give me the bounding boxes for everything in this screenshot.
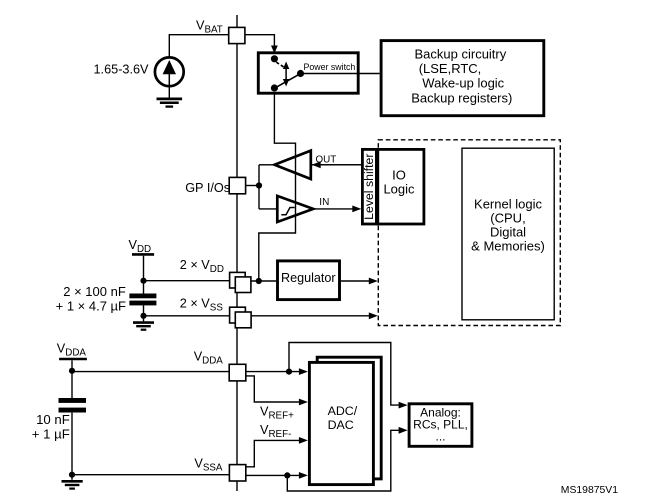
- wire VREF- tap: [246, 440, 299, 466]
- svg-text:Backup registers): Backup registers): [411, 90, 512, 105]
- svg-text:Wake-up logic: Wake-up logic: [422, 76, 504, 91]
- svg-text:& Memories): & Memories): [471, 239, 545, 254]
- wire VDDA rail down: [71, 360, 73, 398]
- wire VDDA line to pin: [72, 371, 229, 373]
- svg-text:Logic: Logic: [383, 181, 415, 196]
- arrows into ADC: [299, 368, 308, 375]
- VDD rail symbol: [129, 238, 155, 255]
- VDDA rail symbol: [57, 342, 87, 359]
- pin VBAT: [229, 27, 245, 43]
- svg-text:ADC/: ADC/: [328, 404, 358, 418]
- voltage source V1 1.65-3.6V: [155, 57, 184, 86]
- capacitor C1 plates: [129, 294, 156, 306]
- wire VBAT pin to power switch: [245, 35, 275, 49]
- wire regulator to kernel: [341, 280, 370, 282]
- wire cap1 to VSS line and ground: [143, 305, 145, 321]
- wire VSS pin to kernel: [251, 315, 369, 317]
- level shifter box: [362, 149, 376, 224]
- wire OUT line over boxes: [312, 164, 362, 166]
- node dot VDD rail: [140, 278, 146, 284]
- switch lever: [272, 72, 304, 90]
- node dot regulator input: [256, 278, 262, 284]
- svg-text:OUT: OUT: [316, 154, 337, 165]
- svg-text:+ 1 × 4.7 µF: + 1 × 4.7 µF: [56, 298, 126, 313]
- svg-text:Level shifter: Level shifter: [362, 154, 376, 220]
- wire VDDA pin to ADC: [246, 371, 300, 373]
- pin GP I/Os: [229, 177, 245, 193]
- svg-text:10 nF: 10 nF: [36, 412, 70, 427]
- kernel dashed region: [378, 140, 560, 326]
- ground below source: [157, 86, 183, 106]
- svg-text:+ 1 µF: + 1 µF: [32, 426, 70, 441]
- node dot GP junction: [256, 182, 262, 188]
- ADC/DAC stacked boxes: [309, 357, 381, 484]
- ground below C1: [133, 323, 154, 330]
- svg-text:Regulator: Regulator: [281, 271, 336, 285]
- wire source to VBAT pin: [169, 35, 228, 58]
- wire VDDA loop over ADC to analog box: [289, 343, 399, 406]
- pin VDDA: [229, 364, 246, 381]
- node dot VSSA line: [284, 472, 290, 478]
- arrows into analog box: [399, 402, 408, 409]
- switch top contact: [271, 55, 278, 62]
- wire main vertical pin rail: [236, 15, 238, 491]
- svg-text:GP I/Os: GP I/Os: [185, 181, 230, 195]
- pin 2xVSS (two): [230, 307, 246, 323]
- svg-text:IN: IN: [319, 197, 329, 208]
- regulator box: [278, 261, 340, 300]
- svg-text:Backup circuitry: Backup circuitry: [415, 47, 507, 62]
- svg-text:(LSE,RTC,: (LSE,RTC,: [419, 61, 482, 76]
- analog box RCs PLL: [409, 404, 472, 447]
- wire IN line to level shifter: [313, 208, 354, 210]
- wire power switch pole to backup box: [301, 73, 380, 75]
- wire VREF+ tap: [246, 376, 300, 402]
- IO logic box: [378, 149, 424, 224]
- arrow VSS line to kernel: [369, 312, 378, 319]
- wire OUT buffer tip to junction: [259, 164, 275, 166]
- ground below C2: [62, 481, 83, 488]
- svg-text:Kernel logic: Kernel logic: [474, 197, 542, 212]
- power switch box SW1: [258, 46, 379, 94]
- wire analog cap to VSSA line and ground: [71, 413, 73, 480]
- svg-text:(CPU,: (CPU,: [490, 211, 525, 226]
- svg-text:MS19875V1: MS19875V1: [561, 485, 618, 496]
- wire VSSA pin to ADC: [246, 474, 300, 476]
- switch toggle double arrow: [285, 67, 287, 81]
- wire VDD pin to regulator: [251, 280, 276, 282]
- svg-text:2 × 100 nF: 2 × 100 nF: [63, 284, 126, 299]
- wire OUT line from level shifter: [312, 164, 362, 166]
- svg-text:IO: IO: [392, 167, 406, 182]
- wire GPIO pin to junction: [246, 185, 259, 187]
- buffer OUT (output driver): [275, 151, 337, 179]
- wire switch bottom contact down to VDD node: [259, 88, 296, 281]
- capacitor C2 plates: [59, 398, 87, 413]
- node dot VDDA rail: [69, 368, 75, 374]
- wire VSSA loop under ADC to analog box: [287, 430, 399, 491]
- pin VSSA: [229, 465, 245, 481]
- wire junction vertical OUT-IN: [258, 165, 260, 209]
- backup circuitry box: [381, 41, 544, 116]
- svg-text:DAC: DAC: [328, 418, 354, 432]
- wire 2xVDD line: [144, 280, 236, 282]
- svg-text:1.65-3.6V: 1.65-3.6V: [94, 62, 150, 76]
- node dot VSSA cap: [69, 472, 75, 478]
- buffer IN (schmitt input): [277, 196, 361, 222]
- wire 2xVSS line: [144, 315, 236, 317]
- svg-text:Digital: Digital: [490, 225, 526, 240]
- svg-text:Power switch: Power switch: [304, 62, 356, 72]
- pin 2xVDD (two): [230, 272, 246, 288]
- node dot VDDA line: [286, 369, 292, 375]
- switch bottom contact: [271, 84, 278, 91]
- kernel logic box: [462, 148, 554, 320]
- wire junction to IN buffer: [259, 208, 277, 210]
- switch pole contact: [297, 70, 304, 77]
- node dot VSS cap: [140, 313, 146, 319]
- arrow into power switch top: [271, 46, 278, 54]
- wire VDD rail down to cap: [143, 256, 145, 294]
- arrow regulator to kernel: [369, 278, 378, 285]
- svg-text:...: ...: [435, 430, 445, 444]
- switch alternate position dashed: [276, 62, 285, 68]
- wire VSSA line to pin: [72, 474, 229, 476]
